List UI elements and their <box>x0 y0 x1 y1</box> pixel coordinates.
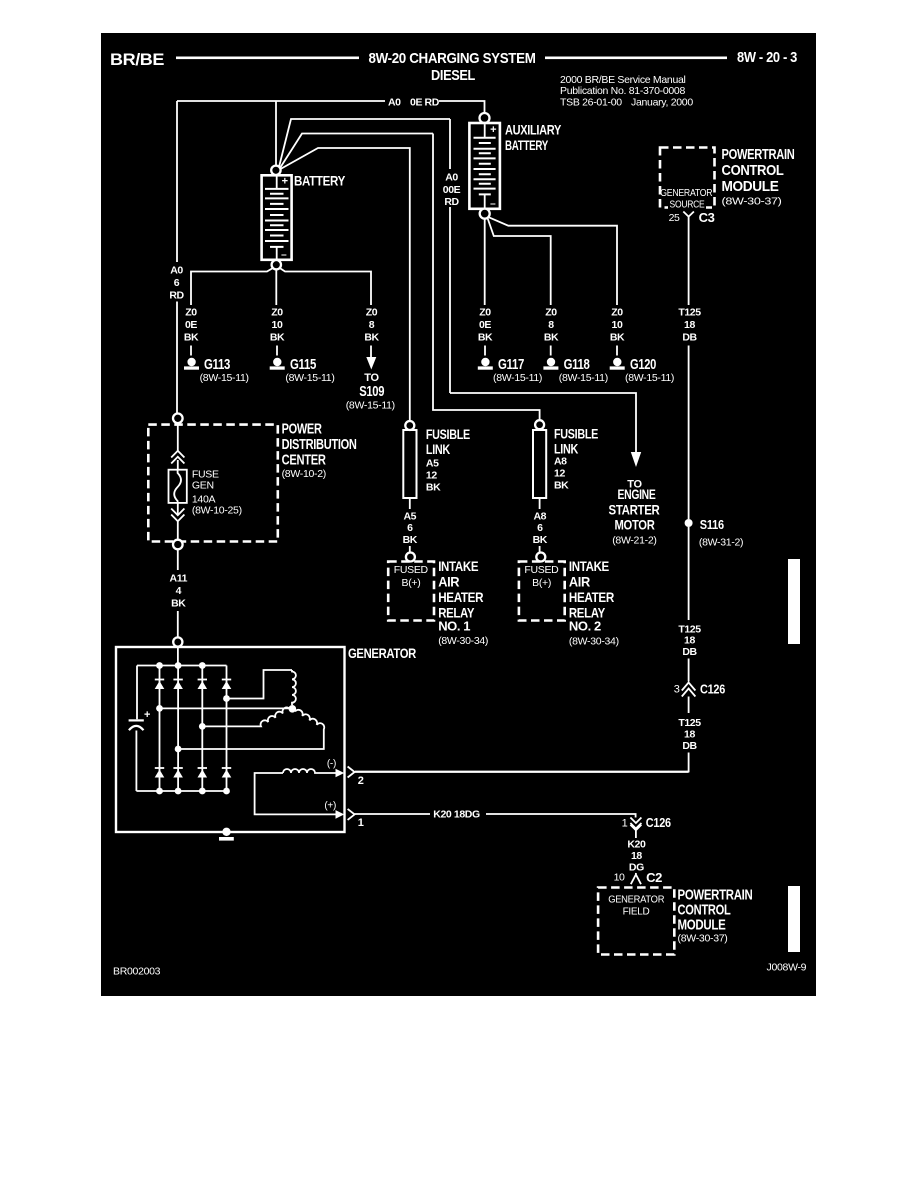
svg-text:(8W-15-11): (8W-15-11) <box>493 372 542 384</box>
wire stub G117 <box>484 346 486 356</box>
wire stub G120 <box>616 346 618 356</box>
svg-text:+: + <box>490 124 496 136</box>
svg-text:K20: K20 <box>627 839 646 851</box>
svg-text:GENERATOR: GENERATOR <box>348 645 416 661</box>
field (+) arrow pin 1 <box>336 810 345 819</box>
svg-text:+: + <box>282 176 288 188</box>
svg-text:POWERTRAIN: POWERTRAIN <box>722 146 795 163</box>
svg-text:FIELD: FIELD <box>623 907 650 918</box>
battery negative terminal junction <box>272 260 281 269</box>
svg-text:NO. 1: NO. 1 <box>438 619 470 634</box>
wire into fuse <box>177 423 179 451</box>
svg-text:BK: BK <box>426 482 441 494</box>
wire <box>688 527 690 620</box>
svg-text:DB: DB <box>682 646 697 658</box>
svg-text:Z0: Z0 <box>185 307 197 319</box>
svg-text:0E: 0E <box>185 319 197 331</box>
wire fusible link A8 feed vertical <box>433 134 540 421</box>
wire A8 6 BK <box>539 498 541 509</box>
svg-text:TSB 26-01-00: TSB 26-01-00 <box>560 97 622 109</box>
relay no.1 terminal <box>406 553 415 562</box>
svg-text:DIESEL: DIESEL <box>431 67 475 84</box>
wire <box>688 346 690 520</box>
svg-text:LINK: LINK <box>426 441 450 457</box>
svg-text:(8W-30-37): (8W-30-37) <box>722 196 782 208</box>
phase vertical 4 <box>226 666 228 792</box>
svg-text:(8W-30-37): (8W-30-37) <box>678 933 728 945</box>
wire <box>688 659 690 682</box>
svg-text:12: 12 <box>554 468 565 480</box>
wire pin2 to C126 <box>355 771 689 773</box>
svg-text:MODULE: MODULE <box>722 178 779 195</box>
svg-text:STARTER: STARTER <box>609 502 660 518</box>
svg-text:AIR: AIR <box>569 574 590 590</box>
fuse chevrons up <box>171 451 184 464</box>
phase vertical 2 <box>177 666 179 792</box>
svg-text:AIR: AIR <box>438 574 459 590</box>
intake air heater relay no.1 dashed box <box>388 562 434 621</box>
fuse chevrons down <box>177 503 179 515</box>
connector C3 <box>683 212 694 223</box>
wire A11 4 BK <box>177 549 179 637</box>
svg-text:BR/BE: BR/BE <box>110 50 164 69</box>
fusible link A5 top terminal <box>405 421 414 430</box>
wire fan to fusible link A5 feed <box>281 148 410 421</box>
capacitor branch wire <box>135 666 138 792</box>
ground G115 <box>273 358 281 366</box>
svg-text:6: 6 <box>174 277 180 289</box>
phase vertical 1 <box>159 666 161 792</box>
svg-text:T125: T125 <box>678 307 701 319</box>
PDC bottom junction <box>173 540 183 550</box>
header rule left <box>176 57 359 60</box>
svg-text:A8: A8 <box>554 456 567 468</box>
svg-text:C126: C126 <box>700 682 725 697</box>
svg-text:1: 1 <box>358 817 364 829</box>
svg-text:6: 6 <box>407 522 413 534</box>
top bus <box>137 665 227 667</box>
svg-text:3: 3 <box>674 684 680 696</box>
diode D1 top <box>155 680 165 690</box>
svg-text:12: 12 <box>426 470 437 482</box>
wire aux neg to G120 <box>488 217 617 305</box>
svg-text:S109: S109 <box>359 383 384 400</box>
svg-text:18: 18 <box>684 729 695 741</box>
svg-text:FUSED: FUSED <box>394 564 429 576</box>
svg-text:BK: BK <box>364 332 379 344</box>
svg-text:4: 4 <box>176 585 182 597</box>
wire battery neg to G113 <box>191 268 273 305</box>
svg-text:G118: G118 <box>564 356 590 373</box>
svg-text:(8W-10-2): (8W-10-2) <box>282 468 326 480</box>
svg-text:K20 18DG: K20 18DG <box>433 809 480 821</box>
svg-text:HEATER: HEATER <box>569 589 614 605</box>
svg-text:18: 18 <box>631 850 642 862</box>
stator neutral wire <box>160 707 290 709</box>
svg-text:NO. 2: NO. 2 <box>569 619 601 634</box>
wire to engine starter motor <box>450 393 636 452</box>
scan artifact white bar lower <box>788 886 800 952</box>
svg-text:BK: BK <box>270 332 285 344</box>
svg-text:FUSED: FUSED <box>524 564 559 576</box>
battery plates <box>276 177 278 259</box>
auxiliary battery box <box>469 123 500 209</box>
svg-text:BK: BK <box>403 534 418 546</box>
svg-text:BK: BK <box>184 332 199 344</box>
svg-text:(8W-30-34): (8W-30-34) <box>438 635 488 647</box>
wire battery neg to S109 <box>280 268 371 305</box>
splice S116 <box>685 519 693 527</box>
wire stub G118 <box>550 346 552 356</box>
svg-text:MOTOR: MOTOR <box>615 517 655 533</box>
connector C126 pin 1 <box>630 818 641 836</box>
bottom bus <box>136 790 226 792</box>
diode D6 bottom <box>173 768 183 778</box>
wire battery junction up <box>275 101 277 166</box>
wire aux neg to G118 <box>488 218 551 305</box>
svg-text:(8W-31-2): (8W-31-2) <box>699 537 743 549</box>
stator junction dot vertical 4 <box>223 695 230 702</box>
svg-text:GENERATOR: GENERATOR <box>660 188 712 199</box>
diode D2 top <box>173 680 183 690</box>
generator box <box>116 647 345 832</box>
fuse GEN 140A box <box>169 470 187 503</box>
connector C126 pin 3 <box>682 683 696 697</box>
wire left branch A0 6 RD vertical <box>176 101 178 413</box>
svg-text:G115: G115 <box>290 356 316 373</box>
svg-text:8W - 20 - 3: 8W - 20 - 3 <box>737 49 797 66</box>
svg-text:1: 1 <box>622 818 628 830</box>
svg-text:(-): (-) <box>327 759 336 770</box>
svg-text:RD: RD <box>169 290 184 302</box>
ground G120 <box>613 358 621 366</box>
stator phase C coil <box>178 710 324 749</box>
phase vertical 3 <box>201 666 203 792</box>
diode D8 bottom <box>222 768 232 778</box>
svg-text:A5: A5 <box>426 458 439 470</box>
wire fan to A0 00E RD (engine starter feed) <box>279 119 450 167</box>
battery box <box>262 175 292 259</box>
svg-text:25: 25 <box>669 212 680 224</box>
svg-text:POWER: POWER <box>282 421 322 438</box>
ground G118 <box>547 358 555 366</box>
svg-text:8: 8 <box>548 319 554 331</box>
PCM generator field dashed box <box>598 888 674 955</box>
diode D3 top <box>198 680 208 690</box>
scan artifact white bar upper <box>788 559 800 644</box>
svg-text:CENTER: CENTER <box>282 452 326 469</box>
generator internal ground dot <box>222 828 230 836</box>
auxiliary battery positive terminal <box>480 113 490 123</box>
svg-text:SOURCE: SOURCE <box>670 200 706 211</box>
svg-text:C2: C2 <box>646 870 662 885</box>
svg-text:J008W-9: J008W-9 <box>767 962 807 974</box>
svg-text:–: – <box>490 199 496 210</box>
black diagram panel <box>101 33 816 996</box>
svg-text:BR002003: BR002003 <box>113 966 161 978</box>
svg-text:DISTRIBUTION: DISTRIBUTION <box>282 436 357 453</box>
diode D4 top <box>222 680 232 690</box>
svg-text:BATTERY: BATTERY <box>505 137 549 153</box>
svg-text:INTAKE: INTAKE <box>438 558 478 574</box>
svg-text:Z0: Z0 <box>271 307 283 319</box>
svg-text:ENGINE: ENGINE <box>618 486 656 502</box>
wire A5 6 BK <box>409 498 411 509</box>
svg-text:BK: BK <box>554 480 569 492</box>
diode D5 bottom <box>155 768 165 778</box>
svg-text:G117: G117 <box>498 356 524 373</box>
svg-text:–: – <box>281 250 287 261</box>
fusible link A8 top terminal <box>535 420 544 429</box>
PCM generator source dashed box <box>660 148 715 208</box>
svg-text:FUSIBLE: FUSIBLE <box>426 426 470 442</box>
svg-text:GENERATOR: GENERATOR <box>608 895 664 906</box>
ground G117 <box>481 358 489 366</box>
PDC top junction <box>173 414 183 424</box>
wire pin1 K20 18DG <box>355 814 636 818</box>
wire stub S109 <box>370 346 372 358</box>
svg-text:2: 2 <box>358 775 364 787</box>
wire T125 18 DB from C3 <box>688 222 690 305</box>
svg-text:0E RD: 0E RD <box>410 97 440 109</box>
svg-text:Z0: Z0 <box>366 307 378 319</box>
svg-text:BK: BK <box>610 332 625 344</box>
svg-text:HEATER: HEATER <box>438 589 483 605</box>
generator ground bar <box>219 837 234 841</box>
relay no.2 terminal <box>536 553 545 562</box>
wire <box>688 697 690 714</box>
svg-text:(8W-15-11): (8W-15-11) <box>346 400 395 412</box>
svg-text:MODULE: MODULE <box>678 917 726 934</box>
header rule right <box>545 57 727 60</box>
svg-text:BATTERY: BATTERY <box>294 173 346 189</box>
stator phase A hook and coil <box>227 670 296 705</box>
bottom bus junction dots <box>156 788 163 795</box>
stator phase B coil <box>202 707 290 726</box>
top bus junction dots <box>156 662 163 669</box>
svg-text:DB: DB <box>682 332 697 344</box>
svg-text:C3: C3 <box>699 210 715 225</box>
svg-text:Z0: Z0 <box>479 307 491 319</box>
svg-text:RD: RD <box>444 196 459 208</box>
svg-text:A8: A8 <box>533 511 546 523</box>
svg-text:A0: A0 <box>445 172 458 184</box>
svg-text:T125: T125 <box>678 717 701 729</box>
pin 2 chevron <box>348 767 355 778</box>
svg-text:B(+): B(+) <box>402 577 421 589</box>
svg-text:BK: BK <box>171 598 186 610</box>
svg-text:CONTROL: CONTROL <box>722 162 784 179</box>
pin 1 chevron <box>348 809 355 820</box>
stator center dot <box>289 705 297 713</box>
svg-text:BK: BK <box>478 332 493 344</box>
svg-text:G113: G113 <box>204 356 230 373</box>
svg-text:6: 6 <box>537 522 543 534</box>
svg-text:(+): (+) <box>324 800 336 811</box>
intake air heater relay no.2 dashed box <box>519 562 565 621</box>
svg-text:8W-20 CHARGING SYSTEM: 8W-20 CHARGING SYSTEM <box>369 50 536 67</box>
svg-text:FUSIBLE: FUSIBLE <box>554 426 598 442</box>
svg-text:(8W-15-11): (8W-15-11) <box>625 372 674 384</box>
svg-text:A0: A0 <box>388 97 401 109</box>
wire corner to generator pin 2 <box>355 753 689 772</box>
svg-text:0E: 0E <box>479 319 491 331</box>
svg-text:Z0: Z0 <box>545 307 557 319</box>
arrow to engine starter <box>631 452 641 467</box>
svg-text:A11: A11 <box>170 573 188 585</box>
svg-text:10: 10 <box>612 319 623 331</box>
wire battery neg to G115 <box>275 269 277 305</box>
svg-text:(8W-15-11): (8W-15-11) <box>285 372 334 384</box>
wire A0 0E RD top horizontal <box>177 101 485 112</box>
svg-text:A0: A0 <box>170 265 183 277</box>
svg-text:(8W-30-34): (8W-30-34) <box>569 636 619 648</box>
svg-text:(8W-21-2): (8W-21-2) <box>612 535 656 547</box>
svg-text:18: 18 <box>684 635 695 647</box>
power distribution center dashed box <box>148 425 277 542</box>
wire A0 00E RD vertical <box>449 119 451 393</box>
svg-text:BK: BK <box>533 534 548 546</box>
svg-text:B(+): B(+) <box>532 577 551 589</box>
svg-text:LINK: LINK <box>554 441 578 457</box>
svg-text:C126: C126 <box>646 815 671 830</box>
svg-text:January, 2000: January, 2000 <box>631 97 693 109</box>
field (-) arrow pin 2 <box>336 769 345 778</box>
svg-text:S116: S116 <box>700 517 724 532</box>
svg-text:BK: BK <box>544 332 559 344</box>
svg-text:(8W-15-11): (8W-15-11) <box>200 372 249 384</box>
field winding loop <box>255 769 336 814</box>
svg-text:GEN: GEN <box>192 480 214 492</box>
connector C2 <box>631 873 641 884</box>
svg-text:10: 10 <box>614 872 625 884</box>
diode D7 bottom <box>198 768 208 778</box>
wire fan to fusible link A8 feed <box>280 134 433 169</box>
svg-text:A5: A5 <box>403 511 416 523</box>
wire stub G115 <box>276 346 278 356</box>
battery positive terminal junction <box>271 166 280 175</box>
auxiliary battery plates <box>484 124 486 207</box>
svg-text:10: 10 <box>272 319 283 331</box>
arrow to S109 <box>366 357 376 370</box>
capacitor plates <box>129 719 144 721</box>
svg-text:DB: DB <box>682 740 697 752</box>
auxiliary battery negative terminal <box>480 209 490 219</box>
svg-text:+: + <box>144 709 150 721</box>
wire aux neg to G117 <box>484 219 486 305</box>
svg-text:8: 8 <box>369 319 375 331</box>
svg-text:(8W-10-25): (8W-10-25) <box>192 505 242 517</box>
fuse element squiggle <box>174 470 181 504</box>
svg-text:DG: DG <box>629 862 644 874</box>
svg-text:00E: 00E <box>443 184 461 196</box>
wire into generator <box>177 647 179 666</box>
svg-text:INTAKE: INTAKE <box>569 558 609 574</box>
svg-text:G120: G120 <box>630 356 656 373</box>
wire K20 18 DG <box>635 835 637 838</box>
svg-text:18: 18 <box>684 319 695 331</box>
generator top junction <box>173 637 182 646</box>
ground G113 <box>187 358 195 366</box>
svg-text:(8W-15-11): (8W-15-11) <box>559 372 608 384</box>
svg-text:AUXILIARY: AUXILIARY <box>505 122 562 138</box>
fusible link A5 body <box>403 430 416 498</box>
fusible link A8 body <box>533 430 546 498</box>
svg-text:Z0: Z0 <box>611 307 623 319</box>
svg-text:Publication No. 81-370-0008: Publication No. 81-370-0008 <box>560 85 685 97</box>
wire stub G113 <box>190 346 192 356</box>
